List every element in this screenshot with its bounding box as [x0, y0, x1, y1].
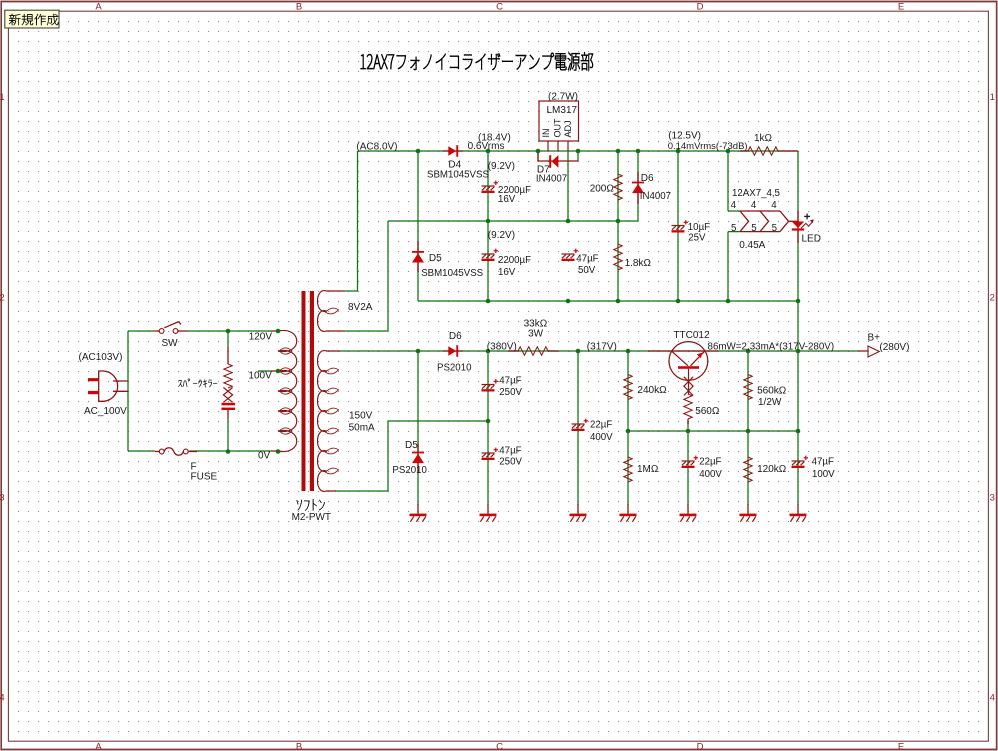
svg-text:250V: 250V — [499, 456, 522, 467]
svg-text:50mA: 50mA — [349, 423, 375, 434]
svg-text:E: E — [898, 742, 904, 751]
svg-text:0.45A: 0.45A — [739, 240, 765, 251]
svg-text:22µF: 22µF — [590, 420, 612, 431]
svg-text:IN: IN — [541, 129, 551, 138]
svg-text:M2-PWT: M2-PWT — [292, 512, 331, 523]
svg-text:400V: 400V — [590, 432, 613, 443]
svg-text:(317V): (317V) — [587, 342, 617, 353]
svg-text:A: A — [95, 2, 102, 13]
svg-text:120V: 120V — [249, 331, 273, 342]
svg-text:C: C — [496, 2, 503, 13]
svg-text:250V: 250V — [499, 387, 522, 398]
svg-text:PS2010: PS2010 — [392, 465, 427, 476]
svg-text:SBM1045VSS: SBM1045VSS — [421, 268, 483, 279]
svg-text:D6: D6 — [449, 331, 462, 342]
svg-text:240kΩ: 240kΩ — [637, 385, 667, 396]
svg-text:D5: D5 — [429, 253, 442, 264]
svg-text:LM317: LM317 — [547, 105, 578, 116]
svg-text:100V: 100V — [812, 469, 835, 480]
svg-text:A: A — [95, 742, 102, 751]
svg-text:22µF: 22µF — [699, 457, 721, 468]
svg-text:47µF: 47µF — [812, 457, 834, 468]
svg-text:2: 2 — [0, 292, 5, 303]
svg-text:D5: D5 — [405, 440, 418, 451]
svg-text:200Ω: 200Ω — [590, 183, 615, 194]
svg-text:E: E — [898, 2, 904, 13]
svg-text:1MΩ: 1MΩ — [637, 464, 659, 475]
svg-text:8V2A: 8V2A — [348, 302, 373, 313]
svg-text:5: 5 — [751, 223, 756, 234]
svg-text:TTC012: TTC012 — [673, 330, 710, 341]
svg-text:SBM1045VSS: SBM1045VSS — [427, 170, 489, 181]
svg-text:25V: 25V — [688, 233, 706, 244]
svg-text:(AC8.0V): (AC8.0V) — [356, 142, 397, 153]
svg-text:(9.2V): (9.2V) — [488, 230, 515, 241]
svg-text:86mW=2,33mA*(317V-280V): 86mW=2,33mA*(317V-280V) — [708, 342, 835, 353]
svg-text:(12.5V): (12.5V) — [668, 131, 701, 142]
svg-text:(AC103V): (AC103V) — [79, 352, 123, 363]
svg-text:FUSE: FUSE — [191, 472, 218, 483]
svg-text:2200µF: 2200µF — [498, 255, 531, 266]
svg-text:AC_100V: AC_100V — [84, 406, 127, 417]
svg-text:SW: SW — [162, 338, 179, 349]
svg-text:0.14mVrms(-73dB): 0.14mVrms(-73dB) — [668, 141, 748, 152]
svg-text:D6: D6 — [641, 173, 654, 184]
svg-text:1kΩ: 1kΩ — [754, 133, 773, 144]
svg-text:0V: 0V — [258, 451, 271, 462]
svg-text:LED: LED — [802, 233, 821, 244]
svg-text:16V: 16V — [498, 267, 516, 278]
svg-text:3: 3 — [990, 493, 995, 504]
svg-text:120kΩ: 120kΩ — [757, 464, 787, 475]
svg-text:5: 5 — [772, 223, 777, 234]
svg-text:50V: 50V — [578, 265, 596, 276]
svg-text:400V: 400V — [699, 469, 722, 480]
svg-text:(9.2V): (9.2V) — [488, 161, 515, 172]
svg-text:(380V): (380V) — [487, 342, 517, 353]
svg-text:3W: 3W — [528, 329, 544, 340]
svg-text:4: 4 — [0, 693, 5, 704]
svg-text:47µF: 47µF — [576, 254, 598, 265]
svg-text:B: B — [296, 742, 302, 751]
svg-text:1: 1 — [0, 92, 5, 103]
svg-text:IN4007: IN4007 — [536, 173, 567, 184]
svg-text:4: 4 — [731, 200, 737, 211]
svg-text:47µF: 47µF — [499, 375, 521, 386]
svg-text:4: 4 — [751, 200, 757, 211]
svg-text:100V: 100V — [248, 371, 272, 382]
svg-text:B: B — [296, 2, 302, 13]
svg-text:0.6Vrms: 0.6Vrms — [468, 141, 505, 152]
svg-text:5: 5 — [731, 223, 736, 234]
svg-text:PS2010: PS2010 — [437, 363, 472, 374]
svg-text:(2.7W): (2.7W) — [548, 92, 578, 103]
svg-text:3: 3 — [0, 493, 5, 504]
svg-text:47µF: 47µF — [499, 445, 521, 456]
svg-text:C: C — [496, 742, 503, 751]
svg-text:2: 2 — [990, 292, 995, 303]
svg-text:OUT: OUT — [553, 118, 563, 138]
svg-text:ADJ: ADJ — [563, 120, 573, 137]
svg-text:560kΩ: 560kΩ — [757, 385, 787, 396]
svg-text:12AX7_4,5: 12AX7_4,5 — [732, 188, 780, 199]
svg-text:1: 1 — [990, 92, 995, 103]
svg-text:(280V): (280V) — [879, 342, 909, 353]
svg-text:16V: 16V — [498, 194, 516, 205]
svg-text:1/2W: 1/2W — [758, 397, 782, 408]
svg-text:IN4007: IN4007 — [640, 191, 671, 202]
svg-text:B+: B+ — [868, 333, 881, 344]
svg-text:4: 4 — [771, 200, 777, 211]
svg-text:D: D — [697, 742, 704, 751]
svg-text:D: D — [697, 2, 704, 13]
svg-text:560Ω: 560Ω — [695, 406, 720, 417]
svg-text:10µF: 10µF — [688, 222, 710, 233]
svg-text:150V: 150V — [349, 411, 373, 422]
svg-text:1.8kΩ: 1.8kΩ — [625, 258, 652, 269]
svg-text:4: 4 — [990, 693, 995, 704]
